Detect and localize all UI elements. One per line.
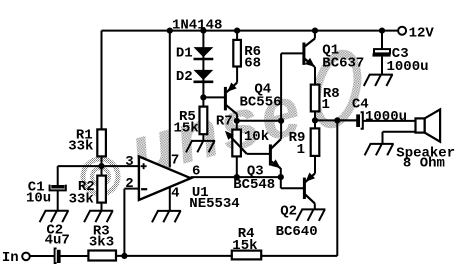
- svg-text:NE5534: NE5534: [189, 196, 239, 212]
- wire pin 2 column: [124, 189, 138, 256]
- node Q3 emitter junction: [278, 174, 284, 180]
- capacitor C4: [356, 112, 363, 128]
- capacitor C1: [50, 185, 66, 191]
- label R1 value: [68, 138, 93, 154]
- wire R7 top: [236, 121, 238, 130]
- label pin 3: [125, 154, 133, 170]
- svg-text:1000u: 1000u: [365, 109, 407, 125]
- wire In to C2: [30, 255, 54, 257]
- label Q1: [322, 42, 339, 58]
- resistor R1: [97, 129, 106, 156]
- wire R9 top: [314, 120, 316, 128]
- transistor Q1: [304, 31, 315, 85]
- svg-text:1000u: 1000u: [387, 59, 429, 75]
- wire diode/R5 column: [202, 31, 204, 107]
- svg-text:1N4148: 1N4148: [172, 18, 222, 34]
- resistor R8: [311, 85, 320, 112]
- wire R1 bottom: [101, 156, 103, 175]
- label Q4: [254, 81, 271, 97]
- node R7 top junction: [234, 118, 240, 124]
- label R9 value: [297, 142, 305, 158]
- ground below C1: [40, 211, 69, 222]
- label R5 value: [174, 120, 199, 136]
- svg-text:3k3: 3k3: [89, 234, 114, 250]
- diode D2: [194, 70, 214, 82]
- svg-text:33k: 33k: [68, 138, 93, 154]
- wire top +12V rail: [102, 30, 399, 32]
- node pin7 rail junction: [167, 28, 173, 34]
- label R8 value: [322, 97, 330, 113]
- wire Q2 base: [281, 177, 304, 188]
- transistor Q4: [225, 83, 237, 122]
- wire C1 top: [57, 166, 59, 185]
- transistor Q2: [304, 173, 315, 210]
- label R9: [289, 130, 306, 146]
- svg-text:12V: 12V: [409, 25, 435, 41]
- svg-text:3: 3: [125, 154, 133, 170]
- svg-text:BC640: BC640: [276, 224, 318, 240]
- svg-text:7: 7: [171, 152, 179, 168]
- node R1-R2 junction: [98, 163, 104, 169]
- speaker LS1: [416, 109, 441, 141]
- wire R4 to feedback: [261, 255, 337, 257]
- svg-text:15k: 15k: [232, 238, 257, 254]
- wire C4 to speaker: [363, 120, 416, 122]
- ground below pin 4: [152, 211, 181, 222]
- label pin 4: [171, 186, 179, 202]
- wire R7 wiper to Q3 base: [247, 153, 269, 155]
- label Q4 type BC556: [240, 95, 282, 111]
- wire pin 3: [58, 165, 139, 167]
- op-amp U1: [139, 156, 191, 200]
- node R8-R9 junction: [312, 117, 318, 123]
- label U1: [192, 185, 209, 201]
- node D2-R5-Q4 junction: [200, 94, 206, 100]
- label pin 2: [125, 176, 133, 192]
- wire C3 top: [381, 31, 383, 49]
- capacitor C2: [55, 248, 61, 263]
- wire R6 top: [236, 31, 238, 40]
- watermark loop flourish: [310, 49, 364, 128]
- svg-text:BC548: BC548: [233, 177, 275, 193]
- wire left drop to R1: [101, 31, 103, 130]
- trimmer R7 wiper arrow: [225, 131, 247, 154]
- wire C2 to R3: [60, 255, 88, 257]
- node R7 bottom junction: [234, 174, 240, 180]
- svg-text:1: 1: [322, 97, 330, 113]
- resistor R4: [232, 251, 261, 260]
- label Q3: [247, 163, 264, 179]
- label C3: [392, 46, 409, 62]
- svg-text:In: In: [2, 250, 19, 266]
- node R6 rail junction: [234, 28, 240, 34]
- node feedback junction: [334, 117, 340, 123]
- watermark text: [122, 70, 312, 191]
- label D2: [176, 69, 193, 85]
- label Q3 type BC548: [233, 177, 275, 193]
- label Q1 type BC637: [322, 56, 364, 72]
- label 1N4148: [172, 18, 222, 34]
- label R2: [78, 179, 95, 195]
- resistor R3: [88, 251, 116, 261]
- label Q2 type BC640: [276, 224, 318, 240]
- svg-text:15k: 15k: [174, 120, 199, 136]
- resistor R5: [200, 107, 208, 135]
- label R1: [76, 127, 93, 143]
- svg-text:1: 1: [297, 142, 305, 158]
- svg-text:BC556: BC556: [240, 95, 282, 111]
- ground below R5: [186, 141, 215, 152]
- label R3 value: [89, 234, 114, 250]
- wire op-amp output: [191, 176, 281, 178]
- watermark stamp ring: [83, 159, 118, 194]
- label R2 value: [69, 191, 94, 207]
- wire R9 to Q2 emitter: [314, 156, 316, 174]
- label D1: [176, 46, 193, 62]
- label pin 7: [171, 152, 179, 168]
- transistor Q3: [270, 139, 280, 177]
- ground below C3: [364, 75, 393, 86]
- label C1 value: [26, 191, 51, 207]
- label R6 value: [244, 55, 261, 71]
- wire feedback: [336, 120, 338, 256]
- wire op-amp pin 4: [169, 187, 171, 211]
- label R5: [179, 109, 196, 125]
- wire op-amp pin 7 to rail: [169, 31, 171, 168]
- wire R3 to R4: [116, 255, 232, 257]
- svg-text:4: 4: [171, 186, 179, 202]
- label C1: [28, 179, 45, 195]
- wire output to C4: [337, 119, 356, 121]
- label C3 value: [387, 59, 429, 75]
- resistor R9: [311, 128, 320, 156]
- label U1 type NE5534: [189, 196, 239, 212]
- terminal +12V: [398, 27, 406, 35]
- label C2: [46, 222, 63, 238]
- label Q2: [280, 204, 297, 220]
- capacitor C3: [373, 49, 391, 57]
- node C3 rail junction: [379, 28, 385, 34]
- label R7 value: [244, 129, 269, 145]
- node Q1 base column junction: [278, 118, 284, 124]
- resistor R7 (trimmer 10k): [232, 130, 241, 157]
- label 12V: [409, 25, 435, 41]
- wire bias rail: [237, 120, 281, 122]
- svg-text:BC637: BC637: [322, 56, 364, 72]
- label 8 Ohm: [403, 156, 445, 172]
- svg-text:4u7: 4u7: [45, 233, 70, 249]
- wire C1 to ground: [57, 190, 59, 210]
- ground below R2: [84, 211, 113, 222]
- svg-text:D2: D2: [176, 69, 193, 85]
- resistor R2: [97, 176, 106, 203]
- label C4 value: [365, 109, 407, 125]
- wire R2 to ground: [101, 203, 103, 211]
- svg-text:8 Ohm: 8 Ohm: [403, 156, 445, 172]
- svg-text:D1: D1: [176, 46, 193, 62]
- label R4: [238, 226, 255, 242]
- resistor R6: [233, 40, 241, 67]
- svg-text:68: 68: [244, 55, 261, 71]
- node diode column rail junction: [200, 28, 206, 34]
- label R8: [323, 86, 340, 102]
- label R6: [244, 44, 261, 60]
- ground below speaker: [365, 144, 394, 155]
- ground below Q2: [296, 209, 325, 220]
- terminal In: [22, 253, 30, 261]
- label Speaker: [396, 146, 455, 162]
- wire R8 to output node: [314, 111, 316, 120]
- svg-text:10k: 10k: [244, 129, 269, 145]
- svg-text:R7: R7: [216, 114, 233, 130]
- svg-text:6: 6: [192, 164, 200, 180]
- label R4 value: [232, 238, 257, 254]
- label C2 value: [45, 233, 70, 249]
- wire output rail: [315, 119, 356, 121]
- svg-text:10u: 10u: [26, 191, 51, 207]
- diode D1: [194, 47, 214, 59]
- wire Q1 base column: [281, 53, 304, 139]
- label R7: [216, 114, 233, 130]
- wire Q4 base: [203, 96, 224, 98]
- svg-text:Q2: Q2: [280, 204, 297, 220]
- label In: [2, 250, 19, 266]
- wire speaker return: [383, 132, 416, 144]
- wire R6 to Q4 emitter: [236, 67, 238, 83]
- label C4: [352, 97, 369, 113]
- label R3: [93, 223, 110, 239]
- node Q1 collector rail junction: [312, 28, 318, 34]
- wire C3 to ground: [381, 57, 383, 75]
- wire R5 to ground: [202, 134, 204, 141]
- wire R7 bottom: [236, 156, 238, 177]
- label pin 6: [192, 164, 200, 180]
- svg-text:33k: 33k: [69, 191, 94, 207]
- node feedback tap junction: [121, 253, 127, 259]
